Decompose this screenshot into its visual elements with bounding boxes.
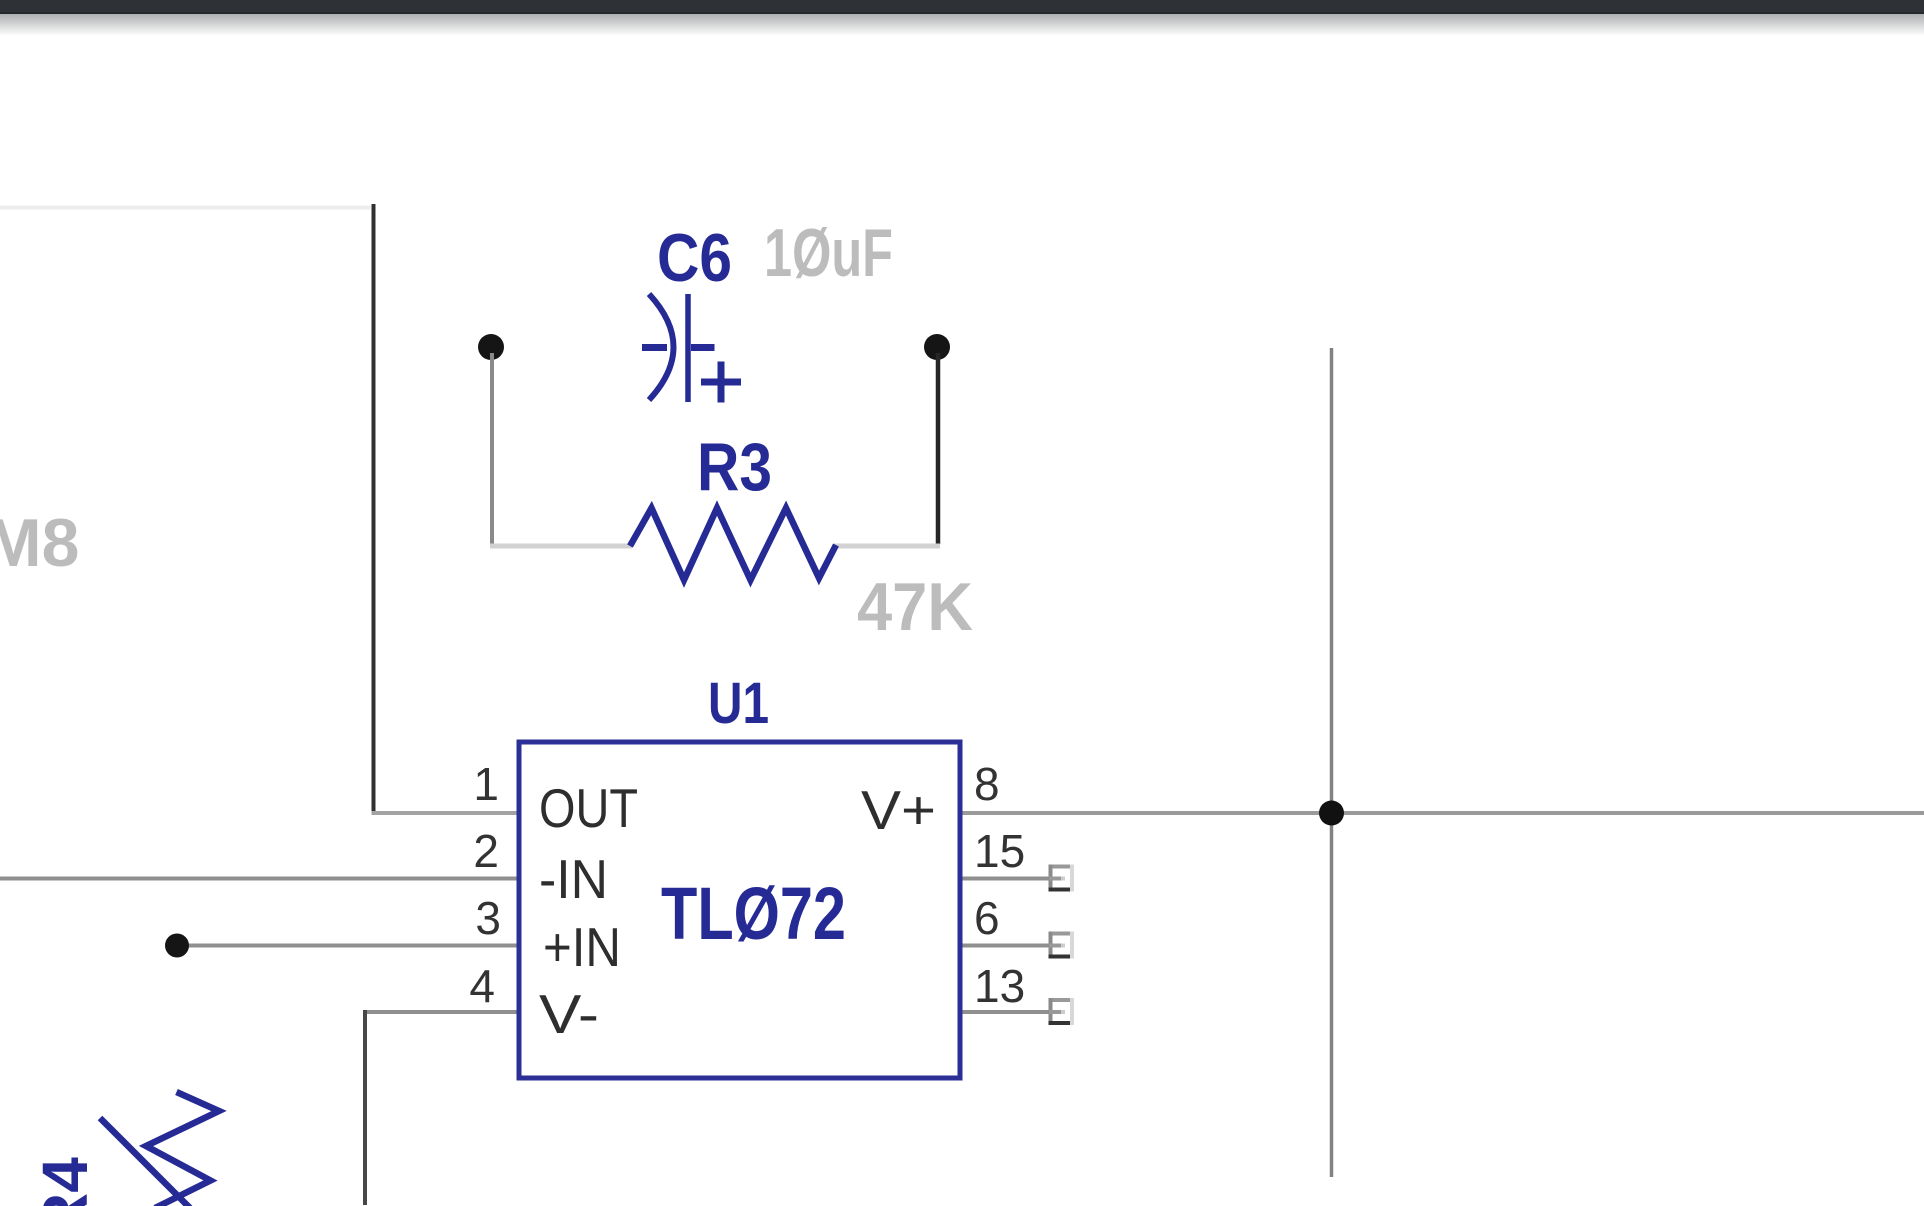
svg-text:V+: V+	[861, 779, 936, 841]
svg-text:OUT: OUT	[539, 777, 638, 839]
svg-text:1: 1	[473, 758, 499, 810]
svg-text:V-: V-	[539, 983, 599, 1045]
svg-text:13: 13	[974, 960, 1025, 1012]
svg-text:3: 3	[475, 892, 501, 944]
svg-text:R3: R3	[697, 429, 772, 505]
svg-text:R4: R4	[29, 1157, 101, 1206]
svg-text:8: 8	[974, 758, 1000, 810]
svg-text:-IN: -IN	[539, 848, 608, 910]
svg-text:6: 6	[974, 892, 1000, 944]
svg-text:U1: U1	[708, 671, 769, 736]
svg-text:TLØ72: TLØ72	[661, 872, 846, 955]
svg-text:15: 15	[974, 825, 1025, 877]
svg-text:4: 4	[469, 960, 495, 1012]
svg-text:M8: M8	[0, 505, 79, 581]
svg-text:47K: 47K	[857, 569, 973, 645]
svg-text:1ØuF: 1ØuF	[764, 215, 893, 291]
svg-text:2: 2	[473, 825, 499, 877]
svg-text:C6: C6	[657, 220, 732, 296]
svg-text:+IN: +IN	[543, 916, 621, 978]
